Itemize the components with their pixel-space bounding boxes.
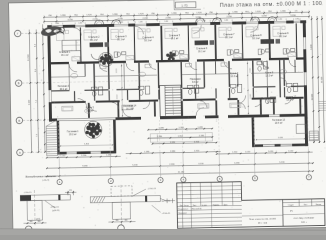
detail 2 axis circle <box>118 225 125 232</box>
window <box>220 21 232 23</box>
window dim ticks <box>293 18 295 20</box>
axis line 4 <box>182 152 184 177</box>
dimension chain vertical <box>322 16 324 143</box>
kitchen counter <box>195 40 209 45</box>
top band room divider walls <box>80 27 82 61</box>
detail 1 pier <box>27 200 42 220</box>
bathroom fixtures <box>286 83 292 87</box>
kitchen counter <box>90 42 104 47</box>
bathroom fixtures <box>187 85 193 89</box>
interior dim chain <box>121 64 122 117</box>
axis line 3 <box>159 152 161 177</box>
entrance porch <box>150 133 212 143</box>
dimension chain <box>44 16 309 21</box>
window <box>197 22 210 24</box>
lower room extra arcs <box>90 104 97 111</box>
window dim ticks <box>51 23 53 25</box>
title block left table rows <box>177 186 242 187</box>
bath band walls <box>74 91 75 101</box>
detail 2 leaders <box>131 189 146 196</box>
dimension chain vertical <box>317 16 319 143</box>
kitchen outline unit1 <box>62 40 81 51</box>
left protrusion windows <box>67 151 77 154</box>
detail 2 centerline <box>120 185 123 225</box>
detail 2 dims under pier <box>109 221 136 224</box>
bay window arc <box>251 17 260 21</box>
dimension chain vertical <box>36 29 38 152</box>
window <box>274 20 286 22</box>
detail 1 axis circle <box>25 226 32 233</box>
top exterior wall <box>47 25 52 28</box>
tables mid rooms <box>71 73 78 78</box>
wall B door arcs <box>112 102 119 109</box>
interior dim texts <box>116 69 118 74</box>
beds <box>56 30 64 40</box>
wardrobes <box>72 57 80 61</box>
bathroom fixtures <box>138 86 144 90</box>
detail 2 pier <box>112 202 130 219</box>
bay window arc <box>213 18 222 22</box>
corridor wall A <box>51 90 69 92</box>
right protrusion internal dim <box>256 138 304 141</box>
dimension chain <box>47 163 313 168</box>
grid axis circle А <box>17 149 24 156</box>
bathroom fixtures <box>91 87 97 91</box>
grid axis circle 3 <box>158 177 163 182</box>
entrance steps right <box>309 131 318 141</box>
detail 1 right end dims <box>67 191 69 195</box>
title block org <box>283 213 325 216</box>
scanner bottom strip <box>0 229 326 235</box>
detail 1 slab <box>20 194 70 200</box>
axis line 7 <box>307 149 309 174</box>
sofas lower rooms <box>62 106 73 111</box>
axis line А <box>23 151 50 154</box>
right protrusion walls <box>252 117 255 147</box>
entrance steps left <box>46 126 57 156</box>
big room arcs <box>123 109 131 117</box>
window <box>160 22 173 24</box>
detail 2 dashed outline <box>111 186 132 196</box>
right zone arcs <box>280 78 287 85</box>
title block center divider <box>282 200 285 227</box>
stamp box 1/73 <box>175 2 196 8</box>
secondary wall B <box>52 101 86 104</box>
grid axis circle Б <box>16 117 23 124</box>
bathroom fixtures <box>230 84 236 88</box>
grid axis circle 6 <box>252 176 257 181</box>
dimension chain vertical <box>312 16 314 143</box>
axis line В extension <box>49 81 149 83</box>
dimension chain <box>148 129 212 130</box>
axis line Г <box>21 32 48 35</box>
detail 2 right end dims <box>166 199 168 204</box>
window <box>114 23 128 25</box>
window dim ticks <box>219 20 221 22</box>
interior dim chain 2 <box>247 61 248 114</box>
lower wall interface thin <box>57 118 115 119</box>
window right <box>303 37 305 49</box>
window dim ticks <box>273 19 275 21</box>
dimension chain <box>153 143 217 144</box>
right zone fixtures <box>257 62 262 65</box>
right upper bathroom <box>265 98 269 103</box>
protrusion window seat <box>296 124 306 133</box>
left exterior wall <box>47 25 51 90</box>
bay window arc <box>95 20 104 24</box>
window dim ticks <box>134 21 136 23</box>
axis line 6 <box>253 150 255 175</box>
window dim ticks <box>196 20 198 22</box>
grid axis circle Г <box>14 30 21 37</box>
lower main wall <box>49 118 57 121</box>
title block left table columns <box>181 183 184 228</box>
plant symbol <box>85 123 101 139</box>
detail 2 slab <box>90 195 160 202</box>
axis line 5 <box>218 151 220 176</box>
stamp corner line <box>173 0 175 9</box>
plant symbol 2 <box>99 54 113 65</box>
window <box>246 21 258 23</box>
dimension chain <box>47 171 313 176</box>
grid axis circle В <box>15 80 22 87</box>
window dim ticks <box>113 22 115 24</box>
grid axis circle 7 <box>306 175 311 180</box>
title block name area line <box>242 214 283 217</box>
partition lines <box>51 75 85 78</box>
dimension chain vertical <box>43 24 45 152</box>
dimension chain vertical <box>29 30 31 153</box>
bay window arc <box>268 17 277 21</box>
detail 1 centerline <box>33 190 36 226</box>
title block frame <box>177 180 325 228</box>
right protrusion windows <box>263 144 275 147</box>
window left <box>48 90 50 102</box>
mid band walls <box>93 64 95 90</box>
corner bay ornament <box>40 25 62 38</box>
bay window arc <box>196 18 205 22</box>
axis line 2 <box>109 153 111 178</box>
stairwell <box>160 85 182 116</box>
dimension chain <box>148 137 212 138</box>
mid horizontal wall <box>51 62 69 65</box>
window <box>135 23 146 25</box>
window door arcs top rooms <box>73 27 81 35</box>
protrusion internal dim <box>61 144 113 147</box>
window dim ticks <box>245 19 247 21</box>
window <box>52 25 63 27</box>
grid axis circle 1 <box>57 179 62 184</box>
dimension chain <box>47 156 121 157</box>
dimension chain <box>126 152 221 154</box>
detail 1 leader <box>45 200 56 208</box>
right exterior wall <box>303 20 306 37</box>
right zone wall <box>279 60 281 97</box>
wc clusters above mid wall <box>117 52 120 57</box>
window <box>294 20 300 22</box>
bay window arc <box>112 20 121 24</box>
axis line Б <box>23 119 50 122</box>
closets corridor <box>100 65 106 69</box>
title block stage cells <box>283 201 325 204</box>
dimension chain <box>217 152 313 154</box>
plant symbol 3 <box>166 51 176 60</box>
extra stub walls <box>84 64 86 77</box>
window dim ticks <box>74 22 76 24</box>
grid axis circle 5 <box>217 176 222 181</box>
right edge steps upper <box>318 100 326 102</box>
window <box>75 24 85 26</box>
dimension chain <box>44 12 309 17</box>
grid axis circle 2 <box>108 178 113 183</box>
door swing arcs <box>69 64 77 72</box>
balcony double door arcs <box>91 54 97 60</box>
grid axis circle 4 <box>181 177 186 182</box>
window dim ticks <box>159 21 161 23</box>
axis line 1 <box>58 154 60 179</box>
axis line В <box>22 82 49 85</box>
detail 1 dims under pier <box>24 222 47 224</box>
kitchen counter <box>261 39 275 44</box>
left protrusion walls <box>57 121 60 155</box>
low band walls <box>88 103 90 118</box>
